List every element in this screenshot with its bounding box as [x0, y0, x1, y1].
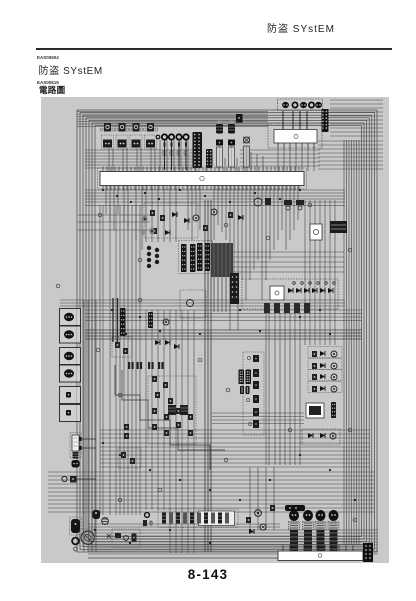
center-left components: [112, 308, 225, 470]
connector columns: [264, 303, 310, 313]
coil feed connector: [285, 505, 305, 511]
lamp: [193, 215, 199, 221]
diode row: [155, 340, 179, 349]
wire bundle: top right horizontals: [330, 100, 383, 128]
ring connector: [72, 538, 79, 545]
fuse 1: [284, 200, 292, 210]
resistor: [203, 225, 208, 231]
small ring: [156, 135, 160, 139]
hatched block: [168, 405, 176, 415]
component: [168, 398, 173, 404]
wire bundle: left mid horizontals: [77, 215, 150, 230]
inline connector pair C: [197, 243, 203, 271]
lamp: [211, 209, 217, 215]
wire bundle: lower horizontals: [100, 430, 370, 467]
wire bundle: under-bar horizontals: [85, 190, 345, 206]
main switch connector: [322, 109, 329, 132]
wire: thick pair left: [113, 298, 118, 342]
subsection title: [39, 84, 65, 96]
wire bundle: right-mid verticals 2: [305, 200, 335, 345]
pin chain connector 1: [147, 246, 151, 268]
header title: [267, 20, 335, 35]
switch connector 3: [60, 348, 81, 365]
wire bundle: bottom bus: [88, 530, 378, 554]
wire bundle: verticals below bar: [106, 186, 298, 330]
oval connector 1: [282, 102, 289, 108]
oval part: [149, 228, 154, 235]
wire bundle: top right horizontals 2: [330, 132, 383, 136]
fuse 2: [296, 200, 304, 210]
top-left ignition coil group: [100, 123, 158, 149]
wire bundle: mid band horizontals: [85, 310, 362, 321]
spark coil 4: [328, 510, 339, 551]
wire bundle: mid-right horizontals: [230, 252, 344, 272]
oval part: [141, 229, 145, 235]
flasher relay: [254, 198, 271, 206]
switch connector 2: [60, 326, 81, 343]
wire bundle: right bus: [344, 140, 359, 545]
bottom right ignition coil bank: [285, 505, 339, 551]
ring row: [293, 282, 336, 285]
small ring: [74, 547, 78, 551]
hatched block: [180, 405, 188, 415]
resistor: [160, 215, 165, 221]
bottom diode box: [302, 429, 340, 445]
spark coil 2: [303, 510, 314, 551]
ignition coil 1: [100, 123, 115, 149]
immobilizer component column: [239, 352, 265, 435]
left connector column: [60, 309, 81, 422]
subsection code: [37, 80, 59, 85]
connector ring 1: [162, 134, 167, 139]
resistor: [150, 210, 155, 216]
meter assembly unit: [242, 279, 338, 313]
spark coil 1: [289, 510, 300, 551]
lower dashed cluster: [118, 448, 141, 468]
part: [249, 529, 254, 534]
connector ring 2: [169, 134, 174, 139]
main harness connector strip: [98, 167, 307, 191]
indicator lamp row 3: [308, 370, 342, 381]
square connector: [137, 362, 143, 369]
bulb B: [260, 524, 266, 530]
horizontal rule: [36, 48, 392, 50]
oval connector 2: [300, 102, 307, 108]
wire: strip feed: [88, 557, 278, 559]
wire bundle: right-mid band verticals: [266, 313, 300, 465]
strip left parts: [143, 513, 153, 526]
lcd unit: [306, 402, 336, 418]
capacitor circle: [102, 518, 109, 525]
diode: [238, 215, 243, 220]
bottom connector strip: [278, 545, 363, 561]
diode: [172, 212, 177, 217]
fuel injector 1: [216, 120, 223, 167]
ignition coil 4: [143, 123, 158, 149]
switch connector 4: [60, 365, 81, 382]
resistor: [115, 342, 120, 348]
resistor: [228, 212, 233, 218]
speed sensor gear: [243, 137, 250, 168]
multipin connector bar: [193, 132, 203, 168]
stair wire 2: [122, 370, 225, 450]
wire bundle: outer loops: [77, 110, 377, 552]
connector ring row: [156, 134, 189, 170]
ring connector 2: [309, 102, 314, 107]
bottom right black connector: [363, 543, 373, 562]
bottom left horn group: [70, 510, 141, 551]
cluster box: [112, 337, 132, 357]
switch chain: [152, 408, 193, 436]
small cluster: [124, 424, 129, 439]
fuse box unit: [268, 111, 322, 149]
diagram background panel: [41, 97, 389, 563]
connector ring 3: [176, 134, 181, 139]
wire bundle: center verticals low 2: [170, 310, 194, 553]
bottom middle terminal strip: [143, 509, 238, 528]
pin connector pair: [239, 370, 245, 385]
capacitor blobs: [162, 150, 189, 156]
inline connector pair A: [181, 244, 187, 272]
component: [155, 392, 160, 398]
below-bar component cluster: [141, 203, 243, 238]
resistor: [123, 348, 128, 354]
drop wires: [165, 140, 187, 170]
bottom center cluster: [246, 505, 275, 534]
section title: [39, 62, 103, 77]
diode: [184, 218, 189, 223]
diode row: [288, 288, 333, 293]
relay blob: [93, 510, 101, 519]
inline connector pair D: [205, 243, 211, 271]
wire bundle: low-mid horizontals: [212, 413, 304, 424]
switch chain dashed box: [148, 376, 196, 444]
battery: [330, 221, 347, 233]
oval connector 3: [315, 102, 322, 108]
sensor bar: [148, 312, 153, 328]
wire bundle: lower horizontals 2: [48, 472, 375, 512]
inline connector dashed box: [179, 241, 213, 274]
wire bundle: harness band: [85, 330, 362, 339]
cluster dashed box: [144, 203, 198, 238]
page number: [0, 567, 416, 582]
square connector: [128, 362, 134, 369]
bulb A: [255, 510, 262, 517]
wire bundle: right upper horizontals: [318, 141, 383, 169]
junction cross: [107, 534, 111, 538]
siren: [80, 529, 97, 547]
oval part: [142, 216, 147, 223]
square connector: [148, 362, 154, 369]
wire bundle: center-left verticals: [100, 205, 140, 515]
spark coil 3: [315, 510, 326, 551]
indicator lamp row 4: [308, 382, 342, 393]
clock unit: [112, 529, 140, 547]
lamp: [163, 319, 169, 325]
fuel injector 2: [228, 120, 235, 167]
left lower unit: [70, 433, 96, 468]
small connector mid-top: [236, 114, 243, 123]
component: [163, 382, 168, 388]
switch connector 5: [60, 387, 81, 404]
pin chain connector 2: [155, 248, 159, 264]
relay dashed box: [180, 290, 206, 318]
part: [246, 517, 251, 523]
wire bundle: center dark band: [211, 243, 233, 277]
resistor: [152, 228, 157, 234]
wire bundle: lower drops: [250, 467, 274, 530]
wire bundle: center vertical pair: [205, 200, 211, 552]
wire bundle: drops above bar: [109, 140, 263, 171]
stair wire: [115, 365, 210, 470]
wire bundle: bottom mid horizontals: [88, 524, 280, 527]
indicator lamp row 2: [308, 359, 342, 370]
connector pins: [164, 143, 188, 147]
connector ring 4: [183, 134, 188, 139]
diode: [165, 230, 170, 235]
part: [270, 505, 275, 511]
speckle rings: [246, 356, 251, 425]
square connector: [158, 362, 164, 369]
inline connector pair B: [190, 244, 196, 272]
wire bundle: center verticals low: [146, 310, 164, 510]
wire bundle: left lower verticals: [84, 300, 96, 552]
component: [152, 376, 157, 382]
servo motor: [70, 517, 82, 535]
wire bundle: top mid horizontals: [85, 150, 196, 168]
ECU multipin connector: [230, 273, 239, 304]
wire bundle: mid horizontals: [60, 300, 345, 306]
ignition coil 3: [129, 123, 144, 149]
section code: [37, 55, 59, 60]
sensor bar: [120, 308, 126, 336]
multipin connector bar 2: [206, 149, 213, 168]
switch connector 6: [60, 405, 81, 422]
sidestand switch: [62, 476, 96, 483]
top right dashed connector box: [278, 99, 323, 111]
component chain: [253, 355, 259, 362]
wire bundle: fusebox drops: [278, 149, 314, 171]
ignition coil 2: [115, 123, 130, 149]
small pin pair: [240, 386, 244, 394]
label rings: [56, 203, 357, 522]
rectifier unit: [310, 224, 322, 240]
ring connector 1: [292, 102, 297, 107]
indicator lamp row 1: [308, 347, 342, 358]
wire bundle: top mid horizontals 2: [240, 150, 320, 166]
wire bundle: top-left horizontals: [77, 112, 268, 127]
switch connector 1: [60, 309, 81, 326]
